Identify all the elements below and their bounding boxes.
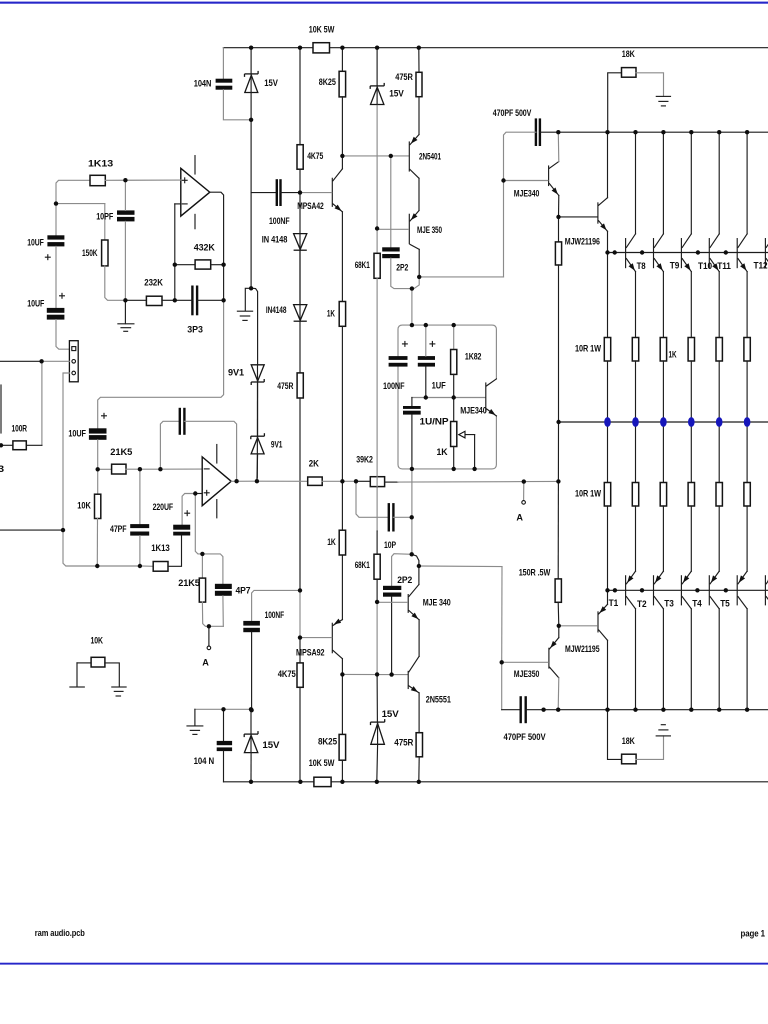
wire output rail segment 2 — [322, 480, 342, 482]
resistor 1K column 3 (upper bank) — [660, 338, 666, 362]
node dot bottom rail / 475R — [417, 780, 421, 784]
wire 1UF top lead — [425, 325, 427, 356]
wire left edge stub — [0, 385, 2, 433]
svg-text:10UF: 10UF — [27, 237, 44, 247]
node dot loop bottom / pot wiper — [472, 467, 476, 471]
zener diode 9V1 (upper, pointing down) — [251, 365, 264, 381]
wire 475R down long — [299, 398, 301, 590]
blue junction dot column 4 — [688, 417, 695, 427]
wire 15V lower-left top lead — [250, 709, 252, 734]
svg-text:MJE350: MJE350 — [514, 669, 540, 679]
wire 18K lower left lead — [608, 710, 622, 760]
svg-text:MJE340: MJE340 — [514, 188, 540, 198]
node dot bottom rail / 4K75 — [298, 780, 302, 784]
node dot MPSA42 base column — [298, 190, 302, 194]
svg-text:MJE340: MJE340 — [460, 405, 487, 415]
wire column 4 resistor to output bus — [690, 361, 692, 422]
wire T3 emitter column — [690, 506, 692, 571]
wire collector node to MJE340 base column — [419, 276, 503, 278]
svg-text:432K: 432K — [194, 243, 216, 253]
op-amp U1 minus input marker — [182, 203, 187, 205]
wire A stub right — [523, 482, 525, 501]
node dot T bus T1-T2 — [640, 588, 644, 592]
wire emitter node to bias resistor — [558, 217, 560, 242]
capacitor 2P2 (upper) — [382, 247, 400, 251]
resistor ballast column 2 (upper bank) — [632, 338, 638, 362]
node dot 150K top junction — [54, 201, 58, 205]
node dot 2N5551 base branch — [389, 672, 393, 676]
capacitor 100NF (lower) — [243, 621, 260, 626]
node dot top rail / 8K25 column — [340, 46, 344, 50]
svg-text:10PF: 10PF — [96, 211, 113, 221]
resistor ballast column 5 (upper bank) — [716, 338, 722, 362]
node dot 21K5 branch — [96, 467, 100, 471]
svg-text:104N: 104N — [194, 78, 212, 88]
wire 15V column down — [250, 193, 252, 289]
ground (top right) — [656, 95, 670, 97]
node dot bottom bus / MJW21195 collector — [605, 708, 609, 712]
svg-text:10K: 10K — [91, 635, 104, 645]
wire 150K top lead — [104, 204, 106, 240]
wire 100R column — [41, 361, 43, 445]
node dot minus column bottom — [173, 298, 177, 302]
wire column 5 resistor to output bus — [718, 361, 720, 422]
wire 15V junction down to base node — [250, 120, 252, 193]
wire MPSA42 collector to 2N5401 base — [342, 155, 390, 157]
node dot compensation cap branch — [158, 467, 162, 471]
resistor 10K 5W (top rail) — [313, 43, 330, 53]
wire 2P2 upper bottom lead — [391, 258, 412, 288]
wire 4P7 bottom lead — [222, 596, 224, 627]
wire 10P left lead — [356, 481, 389, 517]
node dot bottom rail / 8K25 — [340, 780, 344, 784]
node dot MJE340 lower base branch — [375, 600, 379, 604]
transistor T10 — [680, 239, 682, 268]
node dot 21K5/4P7 top junction — [200, 552, 204, 556]
wire rail to 1K lower — [341, 481, 343, 530]
node dot feedback rail / 10PF — [123, 298, 127, 302]
wire 100R right lead — [26, 444, 42, 446]
wire T1-T5 base bus — [608, 589, 768, 591]
wire connector pin3 down — [63, 373, 69, 530]
wire 47PF bottom lead — [139, 536, 141, 566]
svg-text:2P2: 2P2 — [397, 575, 412, 585]
node dot bottom bus / MJE350 collector — [556, 708, 560, 712]
wire 2P2 lower top lead — [392, 554, 412, 586]
svg-text:T12: T12 — [754, 261, 768, 271]
resistor ballast column 4 (lower bank) — [688, 483, 694, 507]
node dot base bus T10-T11 — [696, 250, 700, 254]
wire 475R to 2N5401 emitter — [418, 97, 420, 135]
wire through 15V top-left zener — [250, 74, 252, 93]
transistor MJE350 (lower driver) — [548, 648, 550, 668]
wire A node to 150R — [557, 481, 559, 579]
capacitor 220UF — [173, 525, 190, 530]
transistor T4 — [708, 576, 710, 605]
wire emitter node to MJW21196 base — [559, 216, 598, 218]
node dot 432K left — [173, 263, 177, 267]
node dot MJE350 collector node — [417, 275, 421, 279]
resistor ballast column 6 (lower bank) — [744, 483, 750, 507]
svg-text:MJW21196: MJW21196 — [565, 236, 600, 246]
wire 21K5 vertical bottom lead — [202, 602, 223, 626]
wire 470PF left to base column — [504, 132, 536, 180]
wire 100NF to base node — [281, 192, 301, 194]
wire 9V1 to output node — [256, 454, 259, 481]
node dot 2P2/loop junction — [410, 286, 414, 290]
resistor 68K1 (lower) — [374, 554, 380, 579]
node dot A wire / 150R column — [556, 479, 560, 483]
svg-text:T11: T11 — [717, 261, 731, 271]
wire 1UF bottom lead — [425, 367, 427, 398]
svg-text:MJW21195: MJW21195 — [565, 644, 600, 654]
ground (upper middle) — [237, 310, 252, 312]
wire 1UNP top lead — [411, 398, 413, 407]
capacitor 10PF — [117, 210, 135, 214]
wire zener to bottom rail — [376, 744, 379, 782]
node dot bus/T8 collector — [633, 130, 637, 134]
wire 3P3 right lead — [197, 299, 224, 301]
wire U2 output to rail — [231, 480, 257, 482]
op-amp U2 triangle — [202, 457, 231, 506]
transistor T3 — [680, 576, 682, 605]
zener diode 15V (top right) — [370, 85, 384, 87]
node dot bottom bus / T5 — [745, 708, 749, 712]
svg-text:100NF: 100NF — [265, 610, 285, 620]
svg-text:A: A — [202, 657, 209, 667]
wire output rail segment 4 — [356, 480, 370, 482]
svg-text:10K: 10K — [77, 500, 91, 510]
resistor 1K13 (upper) — [90, 175, 105, 185]
node dot bus/MJW21196 collector — [605, 130, 609, 134]
svg-text:1UF: 1UF — [432, 380, 446, 390]
svg-text:4K75: 4K75 — [307, 151, 323, 161]
svg-text:MPSA92: MPSA92 — [296, 647, 325, 657]
transistor T6 — [764, 576, 766, 605]
wire 1K13 left lead — [56, 180, 90, 203]
wire through 15V bottom-left zener — [250, 734, 252, 753]
svg-text:8K25: 8K25 — [318, 736, 337, 746]
wire edge line lower — [0, 529, 63, 531]
node dot 1UF / base wire — [424, 395, 428, 399]
wire VAS loop bottom and right lower — [398, 367, 496, 469]
resistor 4K75 (lower) — [297, 663, 303, 687]
wire T9 collector up — [662, 132, 664, 234]
capacitor 1U/NP — [403, 406, 421, 409]
blue junction dot column 1 — [604, 417, 611, 427]
node dot MPSA42 collector — [340, 154, 344, 158]
capacitor 10UF (second) — [47, 308, 65, 313]
capacitor compensation (U2) — [179, 408, 181, 435]
node dot loop top / 1UF — [424, 323, 428, 327]
wire 3P3 left lead — [175, 299, 193, 301]
zener diode 15V (bottom left) — [244, 733, 258, 735]
svg-text:100NF: 100NF — [383, 381, 405, 391]
node dot MPSA92 collector — [340, 672, 344, 676]
wire T1 emitter column — [635, 506, 637, 571]
wire MPSA92 collector to 8K25 lower — [341, 674, 343, 734]
wire through 9V1 zeners — [256, 365, 258, 478]
resistor 2K — [308, 477, 323, 485]
wire bus to 475R (2N5401) — [418, 48, 420, 73]
svg-text:T1: T1 — [609, 598, 619, 608]
page bottom border line — [0, 963, 768, 965]
wire minus input column — [174, 204, 176, 300]
svg-text:1K: 1K — [437, 447, 449, 457]
svg-text:18K: 18K — [622, 49, 635, 59]
wire junction to 4P7 — [202, 554, 223, 584]
wire 10R lower to T bus — [607, 506, 609, 590]
wire 68K1 down long — [376, 278, 378, 531]
svg-text:10R 1W: 10R 1W — [575, 343, 601, 353]
svg-text:1K82: 1K82 — [465, 351, 482, 361]
wire column 2 resistor to output bus — [635, 361, 637, 422]
svg-text:MJE 350: MJE 350 — [417, 225, 442, 235]
wire output rail segment 5 — [385, 481, 398, 483]
resistor 10K 5W (bottom rail) — [314, 777, 331, 786]
svg-text:15V: 15V — [262, 740, 279, 750]
node dot top rail / 68K1 column — [375, 46, 379, 50]
node dot MPSA92 base column — [298, 635, 302, 639]
wire 2P2 upper top lead — [390, 156, 392, 247]
resistor 1K13 (lower) — [153, 562, 168, 572]
svg-text:10P: 10P — [384, 540, 396, 550]
wire top positive rail — [223, 47, 418, 49]
wire T10 emitter to resistor — [690, 272, 692, 338]
svg-text:MJE 340: MJE 340 — [423, 597, 451, 607]
wire 1K82 top lead — [453, 325, 455, 349]
capacitor 100NF (upper series) — [276, 179, 278, 206]
node dot pin3 column / edge wire — [61, 528, 65, 532]
blue junction dot column 6 — [744, 417, 751, 427]
svg-text:150K: 150K — [82, 248, 98, 258]
svg-text:470PF 500V: 470PF 500V — [493, 108, 532, 118]
diode IN 4148 (first) — [294, 234, 307, 250]
wire base segment — [391, 155, 409, 157]
svg-text:10R 1W: 10R 1W — [575, 488, 601, 498]
wire minus node to U2 — [160, 468, 202, 470]
wire to ground — [245, 288, 251, 311]
wire output bus to lower resistor column 6 — [746, 422, 748, 483]
transistor MJE340 (inside loop) — [485, 383, 487, 411]
wire T1 collector down — [635, 609, 637, 710]
svg-text:1K: 1K — [327, 308, 335, 318]
svg-text:T10: T10 — [698, 261, 712, 271]
wire A stub left — [208, 626, 210, 646]
resistor ballast column 3 (lower bank) — [660, 483, 666, 507]
plus sign 10UF third — [102, 415, 107, 417]
plus sign 1UF — [430, 343, 435, 345]
svg-text:68K1: 68K1 — [355, 560, 370, 570]
wire T4 collector down — [718, 609, 720, 710]
resistor 21K5 (horizontal) — [112, 464, 126, 474]
resistor 68K1 (upper) — [374, 253, 380, 278]
wire collector node to MJE350 base column — [419, 565, 502, 568]
wire 10P right lead — [393, 516, 411, 518]
wire between 9V1 zeners — [257, 383, 259, 436]
transistor T13 — [764, 239, 766, 268]
node dot bottom bus / T1 — [633, 708, 637, 712]
resistor 10R 1W column 1 (upper bank) — [604, 338, 610, 362]
terminal A right (open circle) — [522, 501, 526, 505]
capacitor 470PF 500V (upper) — [535, 118, 537, 146]
node dot T bus second — [613, 588, 617, 592]
wire MJE350 collector down — [418, 249, 420, 277]
wire collector wire to 2N5551 branch — [342, 673, 391, 675]
resistor (unlabeled bias, x=558) — [555, 242, 561, 265]
terminal bar (left) — [70, 686, 84, 688]
node dot rail / 9V1 column — [255, 479, 259, 483]
svg-text:4K75: 4K75 — [278, 669, 296, 679]
wire 104N lower top lead — [223, 709, 225, 741]
wire 18K upper right lead — [636, 73, 664, 97]
wire 10K right lead — [105, 663, 119, 687]
wire T4 emitter column — [718, 506, 720, 571]
wire between diodes — [299, 250, 301, 304]
node dot T bus T4-T5 — [724, 588, 728, 592]
op-amp U1 triangle — [181, 168, 210, 216]
svg-text:4P7: 4P7 — [236, 585, 251, 595]
svg-text:2K: 2K — [309, 458, 319, 468]
node dot bottom rail / 15V — [249, 780, 253, 784]
svg-text:T4: T4 — [692, 599, 702, 609]
node dot rail / 10P branch — [354, 479, 358, 483]
wire T12 collector up — [746, 132, 748, 234]
resistor 1K82 — [451, 350, 457, 375]
wire output rail segment 1 — [257, 480, 308, 482]
wire through 15V top-right zener — [376, 86, 378, 105]
wire 1K13 to U1 plus input — [105, 179, 181, 181]
node dot top rail / 4K75 column — [298, 46, 302, 50]
node dot top rail / 15V column — [249, 46, 253, 50]
wire 1K82 to pot — [453, 374, 455, 421]
node dot MJE340 emitter node — [556, 215, 560, 219]
svg-text:page 1: page 1 — [741, 929, 766, 939]
resistor 4K75 (upper) — [297, 145, 303, 170]
wire 475R bottom to rail — [418, 757, 420, 782]
capacitor 4P7 — [215, 584, 232, 589]
plus sign 10UF second — [60, 295, 65, 297]
wire bottom bus left segment — [502, 709, 521, 711]
svg-text:8K25: 8K25 — [319, 77, 336, 87]
capacitor 100NF (in loop left edge) — [389, 356, 408, 360]
svg-text:18K: 18K — [622, 736, 635, 746]
wire to MPSA92 base node — [299, 590, 301, 637]
node dot bottom bus / T3 — [689, 708, 693, 712]
resistor ballast column 2 (lower bank) — [632, 483, 638, 507]
wire 2N5401 collector to MJE350 emitter — [418, 178, 420, 210]
resistor 8K25 (upper) — [339, 71, 346, 97]
svg-text:9V1: 9V1 — [271, 439, 283, 449]
node dot bus/T9 collector — [661, 130, 665, 134]
wire output column to interstage — [98, 300, 224, 428]
wire to A-node wire — [557, 422, 559, 481]
wire input to connector pin2 — [42, 360, 70, 362]
node dot loop top / 1K82 — [452, 323, 456, 327]
svg-text:220UF: 220UF — [153, 502, 174, 512]
wire compensation cap right lead — [184, 421, 236, 481]
node dot 100R left edge — [0, 443, 3, 447]
transistor MPSA42 — [331, 178, 333, 206]
op-amp U2 plus input marker — [204, 492, 209, 494]
zener diode 15V (bottom right) — [371, 721, 385, 723]
resistor 8K25 (lower) — [339, 734, 346, 760]
transistor MJE340 (lower pre-driver) — [407, 595, 409, 613]
node dot ground wire / 104N — [221, 707, 225, 711]
svg-text:475R: 475R — [277, 381, 293, 391]
wire output bus to lower resistor column 4 — [690, 422, 692, 483]
node dot bottom rail / 10K — [95, 564, 99, 568]
svg-text:T8: T8 — [637, 261, 646, 271]
wire through IN4148 diodes — [299, 234, 301, 322]
svg-text:9V1: 9V1 — [228, 367, 244, 377]
wire output bus to lower resistor column 3 — [662, 422, 664, 483]
transistor T11 — [708, 239, 710, 268]
wire zener 15V bottom lead — [250, 93, 252, 120]
resistor 475R (middle) — [297, 373, 303, 398]
wire 15V node to 100NF — [251, 192, 277, 194]
resistor 21K5 (vertical) — [199, 578, 205, 602]
wire MJE340 base wire — [412, 397, 485, 399]
wire compensation cap left lead — [160, 421, 179, 469]
resistor 150K — [102, 240, 108, 266]
svg-text:100NF: 100NF — [269, 216, 290, 226]
transistor T9 — [653, 239, 655, 268]
node dot 10PF top — [123, 178, 127, 182]
wire junction to 150K — [56, 203, 105, 205]
node dot loop top / 2P2 column — [410, 323, 414, 327]
wire 10K left down — [76, 663, 78, 687]
wire 10PF bottom lead — [124, 221, 126, 300]
resistor 432K — [195, 260, 211, 269]
resistor 10K (vertical) — [95, 494, 101, 518]
wire T8-T13 base bus — [608, 252, 768, 254]
node dot loop bottom / pot body — [452, 467, 456, 471]
zener diode 15V (top left) — [245, 73, 259, 75]
resistor ballast column 6 (upper bank) — [744, 338, 750, 362]
wire 18K upper left lead — [608, 73, 622, 132]
node dot loop bottom / 1UNP — [410, 467, 414, 471]
op-amp U1 negative supply pin — [194, 214, 196, 228]
svg-text:10UF: 10UF — [68, 428, 86, 438]
wire 68K1 to lower section — [376, 531, 378, 554]
wire diode to 475R — [299, 321, 301, 373]
wire column 6 resistor to output bus — [746, 361, 748, 422]
svg-text:150R .5W: 150R .5W — [519, 567, 551, 577]
wire 10UF third bottom lead — [97, 440, 99, 470]
svg-text:2N5401: 2N5401 — [419, 151, 441, 161]
wire 104N lower bottom lead — [223, 751, 225, 782]
wire input line to edge — [0, 360, 42, 362]
svg-text:475R: 475R — [394, 737, 413, 747]
wire 21K5 to minus node — [126, 468, 160, 470]
wire to collector wire — [376, 602, 378, 675]
node dot 104N/15V junction — [249, 118, 253, 122]
wire between 10UF caps — [55, 246, 57, 308]
svg-text:1K: 1K — [669, 350, 677, 360]
resistor 18K (upper) — [622, 68, 637, 78]
node dot U2 output — [234, 479, 238, 483]
node dot base bus left end — [605, 250, 609, 254]
connector J1 pin 2 (round) — [72, 360, 76, 364]
node dot MJE340 driver base — [501, 178, 505, 182]
svg-text:21K5: 21K5 — [178, 578, 200, 588]
node dot A terminal right — [522, 479, 526, 483]
ground (104N lower) — [187, 725, 203, 727]
svg-text:T2: T2 — [637, 599, 647, 609]
wire T9 emitter to resistor — [662, 272, 664, 338]
transistor MJE340 (upper driver) — [548, 166, 550, 186]
